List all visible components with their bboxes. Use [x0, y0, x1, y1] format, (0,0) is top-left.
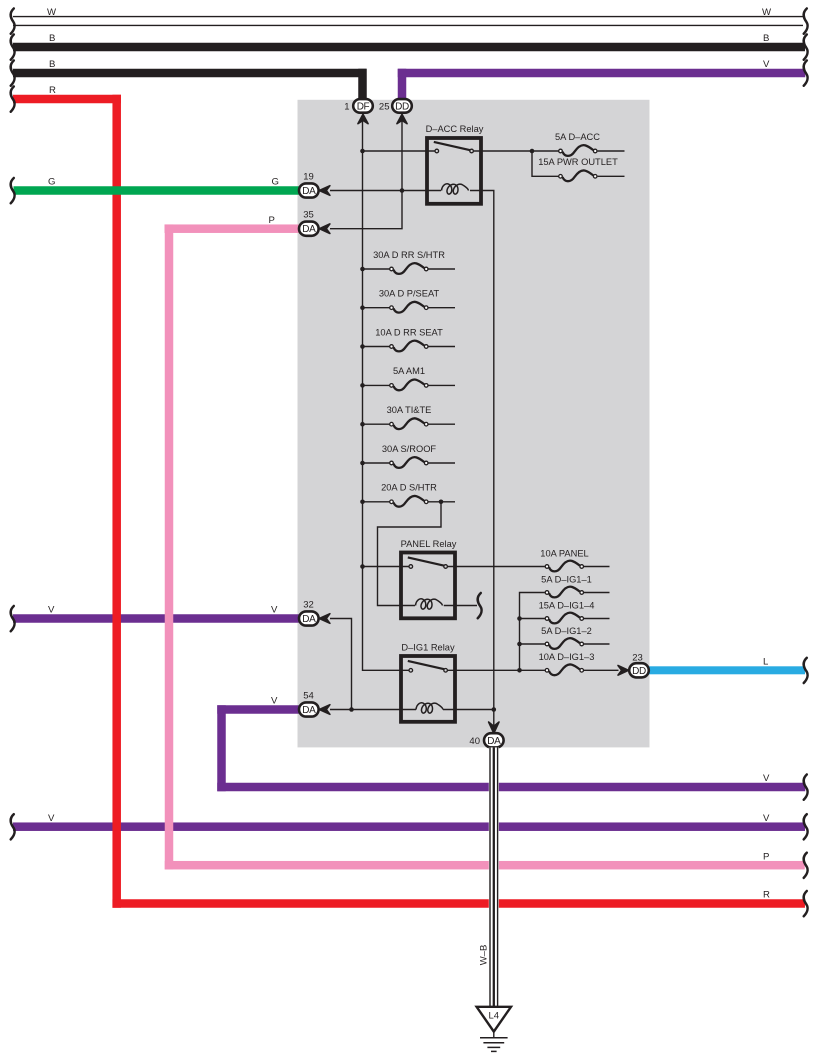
wire: PWR OUTLET branch — [532, 151, 559, 176]
break symbol wire W left — [11, 9, 15, 34]
relay D-IG1 — [401, 643, 455, 722]
break symbol wire R right — [804, 891, 808, 916]
fuse 10A D RR SEAT — [375, 327, 443, 351]
connector DD pin 23 — [618, 653, 649, 678]
wire: D-IG1 relay output row — [448, 669, 545, 671]
svg-text:DA: DA — [302, 224, 316, 235]
break symbol wire V (DA32) left — [11, 606, 15, 631]
relay contact blade — [434, 142, 470, 150]
node: junction on DF bus at 10A D RR SEAT — [360, 344, 365, 349]
fuse 30A D P/SEAT — [379, 289, 440, 313]
svg-text:5A D–IG1–2: 5A D–IG1–2 — [541, 626, 592, 636]
relay coil — [442, 184, 469, 194]
fuse 30A TI&TE — [387, 405, 432, 429]
node: junction on DF bus at 30A S/ROOF — [360, 461, 365, 466]
wire: DD pin25 bus vertical — [330, 120, 402, 229]
svg-text:D–IG1 Relay: D–IG1 Relay — [401, 643, 455, 653]
svg-text:PANEL Relay: PANEL Relay — [401, 539, 457, 549]
connector DF pin 1 — [344, 99, 373, 124]
wire: 15A D-IG1-4 feed and tail — [520, 618, 545, 620]
wire V to DA32 (purple) — [13, 614, 300, 623]
break symbol wire V row3 right — [804, 814, 808, 839]
relay coil — [416, 703, 443, 713]
svg-text:P: P — [269, 215, 275, 226]
wire: PANEL relay contact feed — [363, 566, 409, 568]
break symbol wire B left — [11, 35, 15, 60]
svg-text:D–ACC Relay: D–ACC Relay — [426, 124, 484, 134]
break symbol wire V row3 left — [11, 814, 15, 839]
node: junction on IG1 fuse bus at 15A D-IG1-4 — [517, 616, 522, 621]
wire: PANEL relay contact output to 10A PANEL — [448, 566, 545, 568]
relay contact blade — [408, 557, 444, 565]
fuse 5A D-ACC — [555, 132, 600, 156]
svg-text:DA: DA — [302, 186, 316, 197]
wire name labels — [47, 7, 772, 901]
wire V top to DD (purple) — [398, 69, 806, 78]
break symbol wire P right — [804, 853, 808, 878]
svg-text:30A D P/SEAT: 30A D P/SEAT — [379, 289, 440, 299]
wire: D-ACC coil output to bus — [470, 191, 494, 728]
junction/fuse box (grey background) — [298, 100, 650, 748]
relay contact terminals — [435, 149, 439, 153]
node: junction on IG1 fuse bus at 5A D-IG1-2 — [517, 642, 522, 647]
wire B row1 (black) — [13, 43, 805, 52]
fuse 5A D-IG1-2 — [541, 626, 592, 649]
svg-text:P: P — [763, 851, 769, 862]
relay coil — [416, 599, 443, 609]
svg-text:10A D RR SEAT: 10A D RR SEAT — [375, 327, 443, 337]
wire: 10A PANEL fuse tail — [584, 566, 610, 568]
wire: IG1 fuse bus — [520, 593, 545, 671]
wire: D-ACC relay contact feed — [363, 150, 435, 152]
break symbol wire V (DA54) right — [804, 775, 808, 800]
node: junction on DF bus at PANEL relay feed — [360, 564, 365, 569]
svg-text:DA: DA — [302, 614, 316, 625]
svg-text:19: 19 — [303, 172, 314, 183]
node: junction on DF bus at 20A D S/HTR — [360, 500, 365, 505]
svg-text:G: G — [48, 177, 55, 188]
wire: 20A D S/HTR branch to PANEL coil — [378, 502, 442, 606]
wire L (light blue) — [646, 666, 805, 674]
break symbol wire L right — [804, 658, 808, 683]
svg-text:B: B — [49, 59, 55, 70]
svg-text:V: V — [763, 59, 770, 70]
break symbol wire W right — [804, 9, 808, 34]
junction dots — [349, 149, 534, 712]
break symbol wire G left — [11, 178, 15, 203]
connector DA pin 32 — [299, 600, 330, 626]
relay PANEL — [401, 539, 457, 618]
break symbol wire B2 left — [11, 61, 15, 86]
svg-text:30A D RR S/HTR: 30A D RR S/HTR — [373, 250, 445, 260]
node: junction on DF bus at D-ACC contact feed — [360, 149, 365, 154]
svg-text:V: V — [271, 605, 278, 616]
wire: 5A D-IG1-1 tail — [584, 592, 610, 594]
wire P (pink) — [165, 224, 301, 233]
wire V row3 full width (purple) — [13, 822, 805, 831]
connector DA pin 19 — [299, 172, 330, 198]
wire V from DA54 (purple) — [217, 705, 300, 714]
node: junction on DD bus at DA19 row — [400, 188, 405, 193]
node: junction on IG1 fuse bus at D-IG1 output — [517, 668, 522, 673]
node: junction on DF bus at 30A TI&TE — [360, 422, 365, 427]
relay box — [401, 656, 455, 722]
connector DA pin 54 — [299, 691, 330, 717]
relay box — [401, 553, 455, 619]
svg-text:W: W — [47, 7, 57, 18]
fuse 5A D-IG1-1 — [541, 575, 592, 598]
connector DA pin 40 — [469, 722, 503, 747]
connector DD pin 25 — [379, 99, 412, 124]
node: junction on DF bus at 30A D P/SEAT — [360, 305, 365, 310]
connector DA pin 35 — [299, 210, 330, 236]
relay contact terminals — [409, 669, 413, 673]
wire: fuse row feeds and tails — [363, 268, 390, 270]
wire: PANEL coil output stub — [444, 605, 477, 607]
svg-text:15A PWR OUTLET: 15A PWR OUTLET — [538, 157, 618, 167]
node: junction DA32 branch on D-IG1 coil line — [349, 707, 354, 712]
svg-text:DF: DF — [357, 101, 370, 112]
svg-text:23: 23 — [632, 653, 643, 664]
ground L4 — [477, 1007, 511, 1052]
node: junction at 5A D-ACC / PWR OUTLET branch — [530, 149, 535, 154]
wire W (double line) — [13, 16, 803, 18]
svg-text:20A D S/HTR: 20A D S/HTR — [381, 483, 437, 493]
node: junction on bus to DA40 — [492, 707, 497, 712]
svg-text:DD: DD — [632, 666, 646, 677]
svg-text:54: 54 — [303, 691, 314, 702]
svg-text:40: 40 — [469, 736, 480, 747]
relay D-ACC — [426, 124, 484, 204]
break symbol wire B right — [804, 35, 808, 60]
relay box — [427, 138, 481, 204]
svg-text:V: V — [763, 813, 770, 824]
fuse 15A PWR OUTLET — [538, 157, 618, 181]
svg-text:W–B: W–B — [479, 945, 490, 966]
svg-text:DA: DA — [487, 736, 501, 747]
fuse 10A D-IG1-3 — [539, 652, 595, 675]
svg-text:R: R — [49, 85, 56, 96]
svg-text:V: V — [48, 813, 55, 824]
wire W-B (white with black stripe) to ground — [479, 747, 499, 1006]
svg-text:25: 25 — [379, 102, 390, 113]
svg-text:DA: DA — [302, 705, 316, 716]
svg-text:B: B — [763, 33, 769, 44]
break squiggle on PANEL coil stub — [478, 593, 482, 618]
wire: D-ACC relay contact output — [474, 150, 559, 152]
node: junction at 20A D S/HTR tail branch — [439, 500, 444, 505]
relay contact terminals — [409, 565, 413, 569]
wire: 5A D-IG1-2 feed and tail — [520, 643, 545, 645]
node: junction on DF bus at 5A AM1 — [360, 383, 365, 388]
svg-text:L4: L4 — [489, 1011, 500, 1022]
fuse 20A D S/HTR — [381, 483, 437, 507]
svg-text:1: 1 — [344, 102, 349, 113]
wire: DF pin1 bus vertical — [363, 120, 410, 670]
svg-text:30A TI&TE: 30A TI&TE — [387, 405, 432, 415]
svg-text:5A D–ACC: 5A D–ACC — [555, 132, 600, 142]
wire: DA19 / D-ACC coil line — [330, 190, 441, 192]
svg-text:B: B — [49, 33, 55, 44]
svg-text:32: 32 — [303, 600, 314, 611]
wire: D-IG1 coil output to DA40 — [443, 709, 494, 711]
node: junction on DF bus at 30A D RR S/HTR — [360, 267, 365, 272]
break symbol wire V top right — [804, 61, 808, 86]
fuse 15A D-IG1-4 — [539, 601, 595, 624]
svg-text:DD: DD — [395, 101, 409, 112]
svg-text:10A PANEL: 10A PANEL — [540, 549, 588, 559]
wire: DA32 branch — [330, 619, 352, 710]
fuse 10A PANEL — [540, 549, 588, 572]
svg-text:L: L — [763, 657, 769, 668]
fuse 5A AM1 — [390, 366, 428, 390]
fuse 30A D RR S/HTR — [373, 250, 445, 274]
fuse 30A S/ROOF — [382, 444, 437, 468]
relay contact blade — [408, 661, 444, 669]
wire: 5A D-ACC fuse tail — [598, 150, 625, 152]
svg-text:35: 35 — [303, 210, 314, 221]
wire: D-IG1 coil line from DA54 — [330, 709, 416, 711]
wire B row2 to DF (black) — [13, 69, 367, 78]
svg-text:V: V — [271, 696, 278, 707]
wire G (green) — [14, 186, 301, 195]
wire R (red) — [13, 95, 121, 104]
svg-text:G: G — [272, 177, 279, 188]
svg-text:5A AM1: 5A AM1 — [393, 366, 425, 376]
svg-text:W: W — [762, 7, 772, 18]
svg-text:V: V — [48, 605, 55, 616]
svg-text:R: R — [763, 890, 770, 901]
wire: 15A PWR OUTLET fuse tail — [598, 175, 625, 177]
svg-text:5A D–IG1–1: 5A D–IG1–1 — [541, 575, 592, 585]
svg-text:15A D–IG1–4: 15A D–IG1–4 — [539, 601, 595, 611]
svg-text:30A S/ROOF: 30A S/ROOF — [382, 444, 437, 454]
svg-text:10A D–IG1–3: 10A D–IG1–3 — [539, 652, 595, 662]
break symbol wire R left — [11, 87, 15, 112]
svg-text:V: V — [763, 773, 770, 784]
